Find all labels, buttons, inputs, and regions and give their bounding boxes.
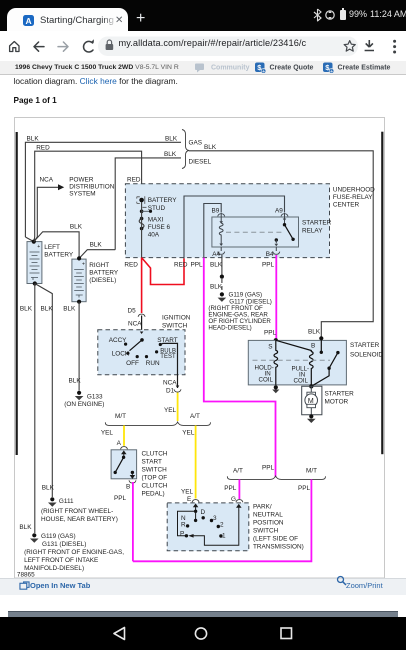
wire PPL brace M/T to bottom bus [133, 479, 312, 561]
svg-text:BLK: BLK [164, 151, 177, 158]
svg-text:R: R [181, 522, 186, 529]
svg-text:RED: RED [127, 177, 141, 184]
svg-text:G119 (GAS): G119 (GAS) [229, 292, 263, 299]
brace gas/diesel [182, 130, 212, 169]
svg-text:A/T: A/T [233, 468, 243, 475]
wire W4 BLK brace to solenoid B [189, 144, 373, 338]
relay terminal B9 [212, 208, 225, 217]
wire W2 RED battery to battery stud [35, 144, 142, 237]
svg-text:RED: RED [124, 262, 138, 269]
fuse MAXI FUSE 6 40A [139, 217, 170, 239]
svg-text:SWITCH: SWITCH [162, 323, 188, 330]
svg-text:SOLENOID: SOLENOID [350, 352, 383, 359]
lock [106, 44, 114, 50]
svg-text:E: E [187, 496, 191, 503]
download icon [365, 40, 374, 51]
svg-text:HOUSE, NEAR BATTERY): HOUSE, NEAR BATTERY) [41, 516, 118, 523]
svg-text:G111: G111 [59, 498, 74, 505]
svg-text:PPL: PPL [191, 262, 204, 269]
ignition switch internals [109, 332, 178, 368]
svg-text:RED: RED [36, 144, 50, 151]
svg-text:NEUTRAL: NEUTRAL [253, 512, 283, 519]
svg-text:(TOP OF: (TOP OF [142, 475, 168, 482]
svg-text:CLUTCH: CLUTCH [142, 451, 168, 458]
wire stud to fuse to box bottom [141, 202, 143, 258]
wire PPL clutch B down to bottom bus [132, 482, 134, 561]
connector clutch A [121, 447, 128, 450]
svg-text:CLUTCH: CLUTCH [142, 483, 168, 490]
svg-text:SWITCH: SWITCH [253, 528, 279, 535]
svg-text:A: A [117, 440, 122, 447]
svg-text:(DIESEL): (DIESEL) [89, 277, 116, 284]
connector clutch B [114, 480, 136, 502]
wire PPL relay B9 coil to brace A/T-M/T [204, 258, 276, 477]
url pill [98, 37, 358, 57]
svg-text:P: P [180, 531, 184, 538]
svg-text:FUSE-RELAY: FUSE-RELAY [333, 194, 373, 201]
svg-text:ACCY: ACCY [109, 337, 127, 344]
svg-text:(ON ENGINE): (ON ENGINE) [64, 401, 104, 408]
page tear bar right [381, 132, 383, 455]
wire NCA to power distribution [37, 177, 64, 238]
wire PPL relay B4 to solenoid S [275, 255, 277, 339]
svg-text:A/T: A/T [190, 413, 200, 420]
svg-text:M/T: M/T [115, 413, 126, 420]
svg-text:B: B [126, 484, 130, 491]
svg-text:FUSE 6: FUSE 6 [148, 224, 171, 231]
svg-text:PPL: PPL [114, 495, 127, 502]
svg-text:OFF: OFF [126, 360, 139, 367]
ground G133 [64, 391, 104, 408]
svg-text:MOTOR: MOTOR [325, 399, 349, 406]
wire START contact to D1 [160, 343, 177, 388]
svg-text:G131 (DIESEL): G131 (DIESEL) [42, 541, 86, 548]
svg-text:SYSTEM: SYSTEM [69, 191, 95, 198]
svg-text:TRANSMISSION): TRANSMISSION) [253, 544, 304, 551]
starter relay box [212, 217, 332, 247]
svg-text:SWITCH: SWITCH [142, 467, 168, 474]
node solenoid B junction [319, 336, 323, 340]
wire YEL brace to clutch A [101, 425, 124, 447]
svg-text:+: + [82, 261, 85, 267]
svg-text:G133: G133 [87, 394, 103, 401]
wire PPL brace to park/neutral G [224, 479, 239, 503]
svg-text:POWER: POWER [69, 177, 94, 184]
svg-text:BLK: BLK [308, 329, 321, 336]
home icon [10, 42, 19, 52]
svg-text:PPL: PPL [262, 262, 275, 269]
svg-text:G119 (GAS): G119 (GAS) [41, 533, 76, 540]
node left battery + [25, 237, 37, 244]
svg-text:STARTER: STARTER [325, 391, 355, 398]
ground G119/G117 [208, 292, 271, 332]
wire RED loop to relay A9 riser [142, 258, 188, 285]
svg-text:PPL: PPL [224, 485, 237, 492]
relay coil [219, 217, 223, 246]
wire BLK left battery - to ground G111 [35, 284, 55, 498]
svg-text:A4: A4 [212, 251, 220, 258]
node right battery - [77, 300, 81, 304]
connector G arc [236, 500, 243, 503]
svg-text:BLK: BLK [19, 524, 32, 531]
svg-text:YEL: YEL [182, 430, 195, 437]
svg-text:BLK: BLK [90, 241, 103, 248]
refresh [84, 41, 93, 52]
svg-text:NCA: NCA [128, 321, 142, 328]
wire YEL D1 to brace [164, 393, 178, 422]
svg-text:PPL: PPL [264, 330, 277, 337]
svg-text:D1: D1 [166, 388, 175, 395]
svg-text:START: START [142, 459, 162, 466]
svg-text:RUN: RUN [146, 360, 160, 367]
svg-text:G: G [231, 496, 236, 503]
wires relay terminals through box edge [221, 213, 284, 251]
svg-text:TEST: TEST [160, 354, 176, 360]
relay switch [275, 217, 295, 246]
svg-text:BATTERY: BATTERY [44, 252, 74, 259]
relay linkage dashed [226, 231, 282, 233]
svg-text:B4: B4 [266, 251, 274, 258]
wire BLK left battery - to ground G119/G131 [19, 284, 34, 534]
svg-text:DIESEL: DIESEL [189, 159, 212, 166]
svg-text:D5: D5 [128, 308, 137, 315]
svg-text:PPL: PPL [298, 485, 311, 492]
ground below starter motor [307, 414, 316, 423]
starter motor [302, 384, 354, 415]
svg-text:COIL: COIL [259, 377, 274, 384]
svg-text:M/T: M/T [306, 468, 317, 475]
relay terminal A4 [212, 251, 224, 258]
svg-text:3: 3 [213, 515, 217, 522]
svg-text:BLK: BLK [204, 144, 217, 151]
connector D5 [128, 308, 146, 328]
svg-text:S: S [268, 344, 272, 351]
solenoid hold-in coil [255, 340, 278, 385]
svg-text:POSITION: POSITION [253, 520, 284, 527]
wire W3 BLK diesel battery to DIESEL brace [115, 151, 181, 250]
forward arrow (disabled) [58, 42, 68, 51]
menu dots [393, 40, 396, 43]
svg-text:NCA: NCA [163, 380, 177, 387]
svg-text:UNDERHOOD: UNDERHOOD [333, 187, 375, 194]
brace M/T A/T ignition split [105, 413, 210, 425]
svg-text:BLK: BLK [165, 136, 178, 143]
svg-text:BLK: BLK [42, 485, 55, 492]
svg-text:PPL: PPL [262, 465, 275, 472]
brace A/T-M/T solenoid feed split [227, 465, 325, 480]
underhood fuse-relay center box [125, 184, 375, 258]
battery right (RIGHT BATTERY DIESEL) [72, 259, 119, 302]
clutch start switch box [111, 450, 168, 498]
wire red riser inside box to relay A9 [184, 196, 285, 259]
star [344, 41, 355, 52]
node left battery - [33, 281, 37, 285]
svg-text:D: D [201, 509, 206, 516]
back arrow [34, 42, 44, 51]
page frame [15, 118, 385, 579]
svg-text:+: + [37, 244, 40, 250]
svg-text:A9: A9 [275, 208, 283, 215]
wire ppl riser inside box to relay B9 [204, 204, 221, 259]
svg-text:(LEFT SIDE OF: (LEFT SIDE OF [253, 536, 298, 543]
status icons [313, 8, 341, 22]
svg-text:2: 2 [220, 522, 224, 529]
svg-text:RELAY: RELAY [302, 228, 323, 235]
solenoid pull-in coil with diagonal from S [276, 340, 313, 385]
wire BLK interlink to right battery + [34, 224, 83, 259]
svg-text:(RIGHT FRONT WHEEL-: (RIGHT FRONT WHEEL- [41, 508, 113, 515]
starter solenoid box [248, 330, 383, 385]
svg-text:BLK: BLK [70, 224, 83, 231]
node stud junction with stub [140, 210, 152, 214]
solenoid linkage dashed [253, 359, 331, 361]
wire BLK right battery - to ground G133 [63, 302, 81, 391]
wire ignition feed D5 to pivot [141, 316, 143, 340]
svg-text:YEL: YEL [164, 407, 177, 414]
park/neutral internals [178, 504, 241, 545]
svg-text:BLK: BLK [63, 306, 76, 313]
svg-text:HEAD-DIESEL): HEAD-DIESEL) [208, 325, 251, 332]
svg-text:BLK: BLK [41, 306, 54, 313]
svg-text:STARTER: STARTER [302, 220, 332, 227]
svg-text:BLK: BLK [20, 306, 33, 313]
battery stud [137, 196, 178, 212]
svg-text:LEFT FRONT OF INTAKE: LEFT FRONT OF INTAKE [24, 557, 98, 564]
svg-text:B9: B9 [212, 208, 220, 215]
ground G111 [41, 497, 118, 523]
svg-text:40A: 40A [148, 232, 160, 239]
svg-text:1: 1 [222, 533, 226, 540]
svg-text:BATTERY: BATTERY [148, 197, 178, 204]
ground G119/G131 [24, 533, 124, 572]
svg-text:IGNITION: IGNITION [162, 315, 191, 322]
svg-text:RED: RED [174, 262, 188, 269]
label 78865 [17, 572, 35, 579]
wire YEL brace to park/neutral E [181, 425, 196, 503]
svg-text:BLK: BLK [210, 262, 223, 269]
label power distribution system [69, 177, 114, 198]
svg-text:CENTER: CENTER [333, 202, 360, 209]
svg-text:NCA: NCA [40, 177, 54, 184]
ignition switch box [98, 315, 191, 375]
battery left (LEFT BATTERY) [27, 242, 74, 284]
wire RED fuse output to ignition D5 [124, 258, 141, 313]
ground below hold-in coil [272, 385, 279, 393]
svg-text:RIGHT: RIGHT [89, 262, 109, 269]
clutch switch internals [114, 451, 135, 478]
relay terminal A9 [275, 208, 288, 217]
svg-text:PEDAL): PEDAL) [142, 491, 165, 498]
wire W1 BLK battery to GAS brace [25, 136, 181, 238]
solenoid main switch [311, 338, 339, 386]
svg-text:(RIGHT FRONT OF ENGINE-GAS,: (RIGHT FRONT OF ENGINE-GAS, [24, 549, 124, 556]
svg-text:BLK: BLK [210, 284, 223, 291]
page tear bar left [16, 132, 18, 455]
svg-text:MAXI: MAXI [148, 217, 164, 224]
node solenoid S junction [274, 338, 278, 342]
svg-text:LEFT: LEFT [44, 244, 60, 251]
svg-text:B: B [311, 343, 315, 350]
svg-text:YEL: YEL [181, 489, 194, 496]
connector E arc [192, 500, 199, 503]
svg-text:PARK/: PARK/ [253, 504, 272, 511]
svg-text:STARTER: STARTER [350, 342, 380, 349]
svg-text:COIL: COIL [294, 378, 309, 385]
park/neutral position switch box [167, 503, 304, 551]
wire BLK right battery + from diesel feed [79, 241, 115, 258]
svg-text:YEL: YEL [101, 430, 114, 437]
label row under fuse box [191, 262, 275, 269]
svg-text:GAS: GAS [189, 140, 203, 147]
relay terminal B4 [266, 251, 280, 258]
svg-text:BLK: BLK [69, 378, 82, 385]
node right battery + [77, 256, 81, 260]
svg-text:BATTERY: BATTERY [89, 270, 119, 277]
label RED above fuse box [127, 177, 141, 184]
svg-text:BLK: BLK [27, 136, 40, 143]
connector D1 [163, 380, 181, 395]
wire BLK relay A4 to ground G119/G117 [210, 255, 224, 292]
svg-text:DISTRIBUTION: DISTRIBUTION [69, 184, 114, 191]
